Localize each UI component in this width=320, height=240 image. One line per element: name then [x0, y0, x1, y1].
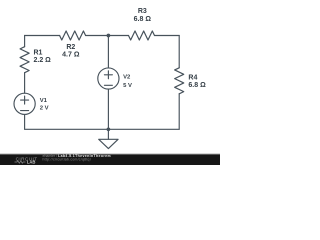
label R3 [134, 8, 152, 23]
voltage source V2 [98, 68, 119, 89]
wire left vertical upper [24, 36, 26, 47]
wire middle vertical lower [107, 89, 109, 129]
label R2 [62, 44, 80, 58]
svg-text:http://circuitlab.com/c/q8tql: http://circuitlab.com/c/q8tql [43, 158, 91, 162]
svg-text:LAB: LAB [27, 160, 36, 165]
footer bar [0, 154, 220, 165]
wire left vertical middle [24, 73, 26, 94]
svg-text:6.8 Ω: 6.8 Ω [188, 82, 206, 89]
svg-text:R3: R3 [138, 8, 147, 15]
svg-text:2.2 Ω: 2.2 Ω [34, 57, 52, 64]
voltage source V1 [14, 93, 35, 114]
footer logo CIRCUIT LAB [15, 156, 38, 164]
label V2 [123, 75, 132, 89]
resistor R4 [175, 68, 184, 94]
wire top-left horizontal [25, 35, 60, 37]
resistor R1 [20, 47, 29, 73]
node junction dot top [107, 34, 111, 38]
svg-text:V2: V2 [123, 75, 131, 81]
svg-text:2 V: 2 V [40, 106, 49, 112]
wire middle vertical upper [107, 36, 109, 68]
wire top-right [155, 35, 180, 37]
ground [99, 129, 118, 148]
svg-text:R4: R4 [188, 74, 197, 81]
svg-text:4.7 Ω: 4.7 Ω [62, 52, 80, 59]
wire right vertical lower [178, 94, 180, 130]
resistor R3 [129, 31, 155, 40]
node junction dot bottom [107, 127, 111, 131]
svg-text:6.8 Ω: 6.8 Ω [134, 16, 152, 23]
svg-text:R1: R1 [34, 50, 43, 57]
svg-text:V1: V1 [40, 98, 48, 104]
wire top-middle [86, 35, 129, 37]
resistor R2 [60, 31, 86, 40]
wire left vertical lower [24, 114, 26, 129]
wire bottom [25, 128, 180, 130]
label R1 [34, 50, 52, 64]
wire right vertical upper [178, 36, 180, 68]
svg-text:R2: R2 [66, 44, 75, 51]
label V1 [40, 98, 49, 112]
label R4 [188, 74, 206, 89]
svg-text:5 V: 5 V [123, 83, 132, 89]
